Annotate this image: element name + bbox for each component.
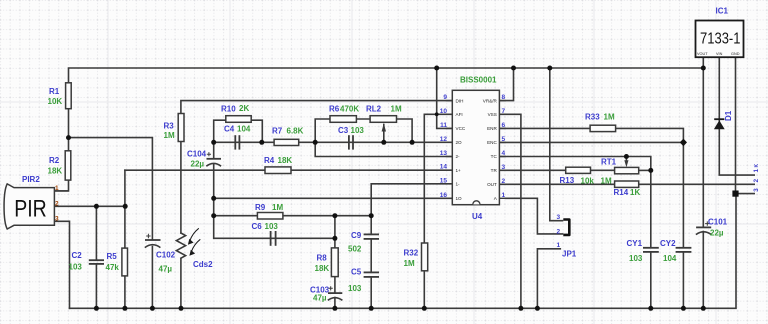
- svg-text:12: 12: [440, 136, 448, 143]
- node 1O column taps: [211, 196, 216, 201]
- svg-text:6: 6: [502, 122, 506, 129]
- capacitor CY1: [643, 248, 659, 252]
- svg-text:1K: 1K: [630, 188, 640, 197]
- node 2O row junctions: [211, 140, 216, 145]
- resistor R32: [422, 243, 428, 271]
- node VCC rail taps: [434, 66, 439, 71]
- capacitor C5: [364, 272, 379, 277]
- svg-text:1M: 1M: [391, 105, 402, 114]
- label PIR pin numbers: [55, 185, 59, 223]
- svg-text:2K: 2K: [239, 104, 249, 113]
- svg-text:R2: R2: [49, 156, 60, 165]
- svg-text:11: 11: [440, 122, 447, 129]
- svg-text:VIN: VIN: [716, 52, 723, 56]
- svg-text:9: 9: [443, 94, 447, 101]
- svg-text:TC: TC: [491, 154, 498, 159]
- resistor R10: [226, 116, 251, 123]
- wire R9 row: [214, 215, 372, 217]
- wire C102 bottom to ground: [151, 247, 153, 309]
- svg-text:R32: R32: [404, 249, 419, 258]
- svg-text:VSS: VSS: [488, 112, 497, 117]
- svg-text:3: 3: [753, 188, 760, 192]
- wire R8 top lead: [334, 216, 336, 248]
- label U4 left pin numbers: [440, 94, 448, 199]
- IC1 7133-1 box: [696, 21, 744, 58]
- svg-text:PIR: PIR: [14, 196, 47, 223]
- svg-text:6.8K: 6.8K: [287, 127, 304, 136]
- svg-text:2: 2: [753, 179, 760, 183]
- svg-text:1: 1: [557, 242, 561, 249]
- wire C9/C5 column: [370, 216, 372, 235]
- resistor R2: [65, 151, 71, 180]
- wire pin14 1+ row (through R4): [125, 169, 452, 171]
- trimmer RT1 body: [615, 167, 639, 173]
- wire CY2 column: [682, 142, 684, 247]
- svg-text:1-: 1-: [456, 182, 461, 187]
- wire RT1 wiper tap: [625, 157, 627, 162]
- wire R2 bottom to PIR pin1: [54, 180, 68, 191]
- svg-text:7: 7: [502, 108, 506, 115]
- resistor R8: [331, 248, 338, 277]
- node ground bus junctions: [94, 306, 99, 311]
- wire pin7 VSS to ground: [499, 114, 521, 308]
- wire pin16 1O row: [214, 197, 453, 199]
- wire IC1 GND lead: [735, 57, 737, 193]
- wire pin15 1- row: [371, 184, 452, 216]
- svg-text:4: 4: [502, 150, 506, 157]
- svg-text:104: 104: [237, 125, 251, 134]
- resistor R14: [615, 181, 639, 187]
- svg-text:502: 502: [348, 245, 362, 254]
- svg-text:103: 103: [351, 126, 365, 135]
- wire AFI pin10 row: [424, 114, 452, 243]
- wire CY1 bottom to bus: [650, 252, 652, 308]
- svg-text:C3: C3: [338, 126, 349, 135]
- wire ground bus: [70, 194, 737, 309]
- wire Cds2 bottom to bus: [180, 259, 182, 309]
- svg-text:R33: R33: [585, 113, 600, 122]
- svg-text:7133-1: 7133-1: [700, 31, 741, 48]
- svg-text:2: 2: [502, 178, 506, 185]
- wire VCC rail to JP1 pin3: [550, 68, 563, 221]
- capacitor C3: [349, 135, 353, 149]
- svg-text:22µ: 22µ: [191, 160, 205, 169]
- wire PIR pin3 to ground bus: [54, 221, 69, 308]
- svg-text:ENR: ENR: [487, 126, 497, 131]
- svg-text:ENC: ENC: [487, 140, 497, 145]
- wire pin13 2- row: [315, 142, 452, 156]
- svg-text:CY1: CY1: [627, 239, 643, 248]
- svg-text:VOUT: VOUT: [697, 52, 708, 56]
- wire C104 column with taps: [213, 142, 215, 158]
- resistor R5: [122, 248, 128, 276]
- svg-text:5: 5: [502, 136, 506, 143]
- wire PIR pin2 net: [54, 205, 125, 207]
- svg-text:C101: C101: [708, 218, 728, 227]
- svg-text:R5: R5: [107, 252, 118, 261]
- wire R3 bottom to Cds2 top: [180, 142, 182, 234]
- node VCC rail to JP1 tap: [547, 66, 552, 71]
- wire IC1 VOUT lead / C101 column: [702, 57, 704, 227]
- resistor R6: [330, 116, 356, 123]
- label U4 internal pin names: [456, 98, 466, 201]
- capacitor CY2: [676, 248, 692, 252]
- photoresistor Cds2 zigzag: [176, 233, 185, 258]
- wire pin5 ENC row: [499, 141, 683, 143]
- svg-text:1M: 1M: [601, 177, 612, 186]
- svg-text:1O: 1O: [456, 196, 463, 201]
- node AFI/VCC tie: [435, 112, 439, 116]
- wire pin4 TC row: [499, 157, 650, 171]
- wire C103 bottom to bus: [334, 298, 336, 309]
- svg-text:103: 103: [629, 254, 643, 263]
- wire C5 bottom to bus: [370, 277, 372, 308]
- photoresistor Cds2 arrows: [189, 228, 201, 255]
- svg-text:103: 103: [265, 222, 279, 231]
- svg-text:R14: R14: [614, 188, 629, 197]
- svg-text:47k: 47k: [106, 263, 120, 272]
- resistor R7: [274, 139, 299, 145]
- wire C2 bottom to bus: [95, 264, 97, 308]
- svg-text:103: 103: [69, 263, 83, 272]
- svg-text:R13: R13: [560, 176, 575, 185]
- svg-text:2: 2: [557, 228, 561, 235]
- svg-text:C9: C9: [351, 231, 362, 240]
- svg-text:R6: R6: [329, 105, 340, 114]
- svg-text:JP1: JP1: [562, 250, 577, 259]
- wire C4/R7/C3 row to U4 pin12 2O: [214, 141, 453, 143]
- capacitor C103 (electrolytic): [328, 286, 343, 300]
- svg-text:47µ: 47µ: [159, 265, 173, 274]
- node R1/R2 junction: [66, 135, 71, 140]
- svg-text:C5: C5: [351, 268, 362, 277]
- svg-text:104: 104: [663, 254, 677, 263]
- resistor R9: [257, 213, 283, 220]
- node GND stub junction: [732, 191, 738, 197]
- svg-text:1: 1: [502, 192, 506, 199]
- wire C2 column: [95, 206, 97, 259]
- svg-text:1+: 1+: [456, 168, 462, 173]
- wire CY2 bottom to bus: [682, 252, 684, 308]
- svg-text:BISS0001: BISS0001: [460, 76, 497, 85]
- trimmer RT1 wiper arrow: [624, 160, 628, 167]
- svg-text:C4: C4: [224, 125, 235, 134]
- svg-text:CY2: CY2: [660, 239, 676, 248]
- wire R8 bottom to C103: [334, 277, 336, 293]
- IC U4 BISS0001 box: [452, 90, 499, 204]
- capacitor C102 (electrolytic): [145, 234, 161, 248]
- label connector pin numbers: [753, 164, 760, 192]
- svg-text:IC1: IC1: [716, 7, 729, 16]
- svg-text:14: 14: [440, 164, 448, 171]
- wire RT1 right to CY1 column: [639, 169, 651, 171]
- PIR pin stubs: [54, 191, 68, 221]
- svg-text:C104: C104: [187, 150, 207, 159]
- svg-text:1M: 1M: [164, 131, 175, 140]
- capacitor C104 (electrolytic): [206, 152, 221, 166]
- svg-text:R1: R1: [49, 87, 60, 96]
- wire R5 bottom to bus: [124, 276, 126, 308]
- wire R13 to RT1: [591, 169, 615, 171]
- svg-text:47µ: 47µ: [313, 294, 327, 303]
- potentiometer RL2 body: [370, 116, 396, 123]
- svg-text:18K: 18K: [48, 167, 63, 176]
- svg-text:U4: U4: [472, 212, 483, 221]
- svg-text:10k: 10k: [581, 177, 595, 186]
- resistor R4: [265, 167, 291, 174]
- wire R10 upper branch: [214, 120, 263, 142]
- wire C9 to C5 link: [370, 239, 372, 272]
- svg-text:18K: 18K: [278, 156, 293, 165]
- svg-text:3: 3: [55, 216, 59, 223]
- potentiometer RL2 wiper arrow: [382, 123, 386, 131]
- svg-text:R9: R9: [255, 203, 266, 212]
- svg-text:2O: 2O: [456, 140, 463, 145]
- svg-text:3: 3: [557, 214, 561, 221]
- wire pin6 ENR through R33: [499, 128, 683, 142]
- svg-text:K: K: [754, 164, 760, 168]
- capacitor C4: [235, 135, 239, 149]
- capacitor C101 (electrolytic): [696, 221, 712, 234]
- wire R1/R2 junction to C102 column: [69, 138, 153, 240]
- wire IC1 VIN lead through D1 to connector: [719, 57, 754, 175]
- resistor R13: [566, 167, 591, 173]
- resistor R1: [66, 83, 72, 109]
- wire pin2 OUT row through R14 to connector: [499, 183, 754, 185]
- wire R5 column: [124, 170, 126, 248]
- svg-text:10: 10: [440, 108, 448, 115]
- svg-text:R8: R8: [317, 254, 328, 263]
- svg-text:2: 2: [55, 201, 59, 208]
- svg-text:RT1: RT1: [601, 158, 617, 167]
- svg-text:13: 13: [440, 150, 448, 157]
- capacitor C6: [271, 231, 276, 246]
- svg-text:470K: 470K: [340, 105, 359, 114]
- wire GND stub to connector: [736, 193, 755, 195]
- capacitor C9: [364, 234, 379, 239]
- wire pin1 A to JP1 pin2: [505, 198, 562, 234]
- label JP1 pin numbers: [557, 214, 561, 249]
- wire R3 top to U4 pin9 DIH: [181, 101, 452, 114]
- svg-text:VR&/R: VR&/R: [483, 98, 498, 103]
- svg-text:R3: R3: [164, 122, 175, 131]
- resistor R33: [590, 125, 616, 131]
- svg-text:10K: 10K: [48, 97, 63, 106]
- svg-text:103: 103: [348, 284, 362, 293]
- svg-text:Cds2: Cds2: [193, 260, 213, 269]
- wire R1 bottom to R2 top: [68, 109, 70, 151]
- PIR sensor body: [4, 184, 54, 229]
- svg-text:8: 8: [502, 94, 506, 101]
- wire pin8 VRE/R riser: [499, 68, 513, 101]
- svg-text:C6: C6: [252, 222, 263, 231]
- wire C104 bottom through taps to C6 corner: [214, 165, 335, 239]
- svg-text:R4: R4: [264, 156, 275, 165]
- node RT1 wiper tap: [624, 154, 629, 159]
- svg-text:15: 15: [440, 177, 448, 184]
- wire JP1 pin1 to bus: [537, 249, 560, 308]
- wire R32 bottom to bus: [423, 271, 425, 309]
- svg-text:3: 3: [502, 164, 506, 171]
- node PIR pin2 taps: [94, 204, 99, 209]
- svg-text:TR: TR: [491, 168, 498, 173]
- svg-text:D1: D1: [724, 110, 733, 121]
- IC U4 left pin stubs: [446, 101, 453, 199]
- svg-text:R10: R10: [221, 105, 236, 114]
- wire RL2 wiper to row: [383, 125, 385, 143]
- svg-text:1M: 1M: [604, 113, 615, 122]
- wire VCC top rail: [69, 68, 704, 83]
- svg-text:1M: 1M: [272, 203, 283, 212]
- svg-text:AFI: AFI: [456, 112, 463, 117]
- capacitor C2: [89, 260, 104, 264]
- svg-text:GND: GND: [731, 52, 740, 56]
- svg-text:C102: C102: [156, 251, 176, 260]
- wire C101 bottom to bus: [702, 232, 704, 309]
- wire pin3 TR row to R13: [499, 169, 565, 171]
- svg-text:R7: R7: [272, 127, 283, 136]
- node R8 top / 1- taps: [332, 213, 337, 218]
- wire R6/RL2 upper branch: [315, 119, 412, 142]
- label U4 right pin numbers: [502, 94, 506, 199]
- svg-text:16: 16: [440, 192, 448, 199]
- svg-text:RL2: RL2: [366, 105, 382, 114]
- svg-text:DIH: DIH: [456, 98, 464, 103]
- connector JP1 bracket: [563, 220, 569, 235]
- svg-text:1: 1: [55, 185, 59, 192]
- node ENC/R33/CY2 junction: [680, 139, 687, 147]
- svg-text:2-: 2-: [456, 154, 461, 159]
- diode D1: [714, 119, 725, 129]
- label IC1 pin names: [697, 52, 740, 56]
- svg-text:1: 1: [753, 169, 760, 173]
- svg-text:22µ: 22µ: [710, 229, 724, 238]
- node RT1/TC junction: [648, 168, 653, 173]
- wire VCC drop to pin11: [437, 68, 453, 128]
- wire CY1 column: [650, 170, 652, 247]
- svg-text:C2: C2: [72, 251, 83, 260]
- svg-text:OUT: OUT: [487, 182, 497, 187]
- svg-text:18K: 18K: [315, 264, 330, 273]
- IC U4 right pin stubs: [499, 101, 506, 199]
- resistor R3: [178, 114, 184, 142]
- svg-text:PIR2: PIR2: [22, 175, 40, 184]
- svg-text:1M: 1M: [404, 259, 415, 268]
- svg-text:VCC: VCC: [456, 126, 466, 131]
